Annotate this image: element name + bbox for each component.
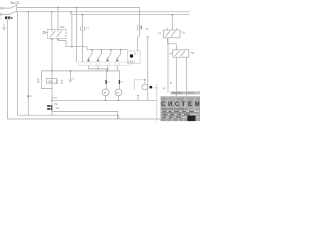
contact branch 4 bbox=[117, 50, 121, 62]
switch linkage bbox=[16, 5, 18, 12]
overload F2 box bbox=[46, 79, 57, 84]
svg-text:TM: TM bbox=[181, 30, 185, 34]
node L3-x82.6 bbox=[82, 14, 84, 16]
contact number specks bbox=[87, 60, 118, 61]
node L2-x28.3 bbox=[28, 11, 30, 13]
terminal strip box bbox=[79, 62, 132, 65]
contactor K1 box bbox=[163, 30, 180, 38]
breaker Q1 box bbox=[48, 29, 67, 38]
switch Q0 pole 1 blade bbox=[3, 5, 17, 8]
wire Q1 feed left bbox=[51, 12, 53, 29]
wire collect line y71 bbox=[41, 70, 119, 72]
terminal stub x138 bbox=[137, 96, 139, 101]
sensor box corner dot bbox=[144, 79, 146, 81]
breaker Q1 left symbol bbox=[43, 31, 45, 33]
node U label dot bbox=[27, 95, 29, 97]
watermark left faint border bbox=[156, 84, 159, 121]
wire vertical x28.3 bbox=[27, 12, 29, 115]
breaker Q1 bottom ticks bbox=[51, 39, 59, 41]
node lineA-branch2 bbox=[97, 68, 98, 69]
svg-text:2-09: 2-09 bbox=[153, 87, 158, 89]
svg-text:U: U bbox=[72, 76, 74, 80]
rail L2 bbox=[15, 11, 189, 13]
wire Q1 feed right from L1 bbox=[57, 7, 59, 29]
node L3-x172.3 bbox=[172, 14, 174, 16]
switch Q0 pole 1 terminal bbox=[1, 7, 3, 9]
node jog x71.9 bbox=[71, 46, 73, 48]
node subrail 4 bbox=[120, 49, 122, 51]
node subrail 2 bbox=[101, 49, 103, 51]
watermark top faint bar bbox=[171, 91, 201, 94]
contact branch 3 bbox=[108, 50, 112, 62]
contact branch 2 bbox=[98, 50, 102, 62]
wire L2-L3 branch stub bbox=[70, 12, 72, 15]
svg-text:PTC: PTC bbox=[116, 92, 120, 94]
node y71-U bbox=[70, 70, 72, 72]
overload F2 loop bbox=[41, 71, 52, 89]
black dot marker 1 bbox=[130, 54, 133, 57]
rail L1 bbox=[17, 6, 140, 8]
lamp H1 branch bbox=[105, 69, 107, 89]
collect line A bbox=[89, 68, 110, 70]
lamp H1 circle bbox=[102, 89, 109, 96]
black dot marker 2 bbox=[149, 86, 152, 89]
lamp H2 plug mark bbox=[119, 80, 120, 83]
node rail-lamp1 bbox=[105, 100, 107, 102]
fuse F0 dark label top-left bbox=[5, 16, 12, 19]
contactor K2 box bbox=[173, 50, 189, 57]
watermark texture columns bbox=[166, 96, 196, 121]
node subrail 3 bbox=[110, 49, 112, 51]
connector pair marks bbox=[57, 80, 63, 83]
breaker Q1 inner stubs bbox=[52, 29, 58, 31]
wire K1 to K2 jog bbox=[168, 38, 177, 50]
lamp H2 circle bbox=[115, 89, 122, 96]
node rail-lamp2 bbox=[118, 100, 120, 102]
watermark top bar marks bbox=[172, 92, 182, 94]
junction dots bbox=[27, 7, 173, 102]
watermark gray box bbox=[161, 96, 201, 121]
watermark stripe rows bbox=[162, 111, 199, 121]
contactor K1 blades bbox=[166, 31, 176, 37]
node lineB-branch3 bbox=[107, 70, 108, 71]
watermark black corner box bbox=[187, 116, 195, 121]
wire bottom line y119 bbox=[8, 118, 197, 120]
wire vertical x71.9 to jog bbox=[71, 15, 73, 47]
contact branch 1 bbox=[89, 50, 93, 62]
terminal strip drops bbox=[89, 65, 118, 71]
vertical x147.8 bbox=[147, 37, 149, 101]
svg-text:17mm: 17mm bbox=[128, 61, 135, 64]
switch Q0 pole 2 blade bbox=[2, 11, 15, 14]
wire bottom line y115.2 bbox=[18, 114, 119, 116]
rail L3 bbox=[71, 14, 190, 16]
lamp H2 branch bbox=[119, 71, 121, 89]
svg-text:ЭЛЕКТРО КОМПЛЕКТ: ЭЛЕКТРО КОМПЛЕКТ bbox=[162, 108, 188, 111]
node L1-x76.5 bbox=[76, 7, 78, 9]
mid line y111.4 bbox=[52, 111, 118, 119]
terminal strip cell marks bbox=[87, 62, 120, 65]
svg-text:1P6: 1P6 bbox=[48, 80, 53, 83]
node y71-x52 bbox=[51, 70, 53, 72]
svg-text:PE: PE bbox=[54, 103, 58, 106]
sensor circle bbox=[142, 84, 148, 90]
contactor K2 blades bbox=[175, 51, 185, 56]
node L2-x71 bbox=[70, 11, 72, 13]
marker box with dot bbox=[127, 51, 140, 63]
fuse F2 contact marks bbox=[137, 25, 141, 30]
sensor bracket box bbox=[134, 80, 145, 90]
connector X1 dark bars bbox=[47, 105, 52, 110]
contactor K1 feed bbox=[171, 15, 173, 30]
voltage tap U arrow bbox=[69, 71, 72, 82]
switch Q0 pole 2 terminal bbox=[0, 14, 2, 16]
wire K1 aux drop bbox=[167, 38, 169, 93]
node L1-x58 bbox=[57, 7, 59, 9]
svg-text:ооо мп: ооо мп bbox=[162, 98, 170, 100]
svg-text:A2: A2 bbox=[169, 51, 173, 55]
wire vertical x76.5 from L1 bbox=[76, 7, 78, 62]
stub right of F2 branch bbox=[52, 97, 57, 99]
ground arrow left bbox=[3, 24, 6, 30]
svg-text:Sa-Q1: Sa-Q1 bbox=[10, 1, 19, 5]
wire K2 drops bbox=[176, 57, 186, 96]
wire Q1 out left / F2 branch vertical bbox=[51, 39, 53, 105]
lamp H1 lead bbox=[104, 96, 106, 101]
node rail start bbox=[51, 100, 53, 102]
svg-text:F10: F10 bbox=[60, 25, 65, 29]
tick x147.8 top bbox=[147, 36, 150, 38]
wire corner x118.8 bbox=[118, 115, 120, 119]
node L2-x51.8 bbox=[51, 11, 53, 13]
blade feet ticks bbox=[88, 58, 89, 59]
sub-rail y49.7 bbox=[87, 49, 128, 51]
svg-text:M: M bbox=[170, 82, 172, 85]
svg-text:U: U bbox=[30, 94, 32, 98]
wire vertical x82.6 from L3 bbox=[82, 15, 84, 62]
bottom rail y100.3 bbox=[52, 99, 157, 101]
watermark row dashes bbox=[163, 111, 195, 118]
wire Q1 out right jog bbox=[58, 39, 87, 50]
svg-text:тел 2-12: тел 2-12 bbox=[176, 98, 185, 100]
lamp H2 lead bbox=[117, 96, 119, 101]
connector X1 lead lower bbox=[51, 110, 53, 116]
wire left vertical x17.5 bbox=[17, 12, 19, 115]
wire left vertical x7.5 bbox=[7, 20, 9, 119]
svg-text:TM: TM bbox=[190, 51, 194, 55]
fuse F1 contact marks bbox=[81, 27, 85, 31]
svg-text:M: M bbox=[104, 92, 106, 94]
small dark dot on fuse F2 bbox=[140, 27, 141, 28]
node subrail 1 bbox=[91, 49, 93, 51]
lamp H1 plug mark bbox=[105, 80, 106, 83]
contactor K1 top stubs bbox=[168, 28, 177, 30]
branch F2 right: corner from L1top bbox=[137, 7, 139, 51]
breaker Q1 blades bbox=[50, 31, 62, 37]
svg-text:A1: A1 bbox=[158, 31, 162, 35]
